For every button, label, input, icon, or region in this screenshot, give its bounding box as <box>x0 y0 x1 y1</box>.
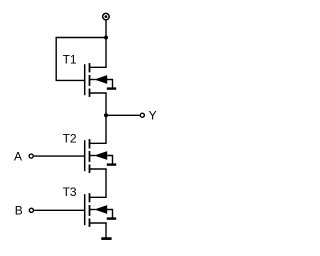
T1 bulk pin <box>90 79 96 81</box>
T2 gate bar <box>84 140 86 171</box>
T3 channel segment source-side <box>89 219 91 227</box>
T1 channel segment source-side <box>89 89 91 97</box>
T2 source pin <box>90 168 107 170</box>
T3 channel segment bulk-side <box>89 205 91 216</box>
T2 channel segment drain-side <box>89 139 91 148</box>
wire T1 gate lead <box>56 79 85 81</box>
svg-text:B: B <box>15 203 23 217</box>
T1 bulk tap bar <box>107 87 116 89</box>
wire T1 source to node Y <box>105 93 107 115</box>
T2 drain pin <box>90 142 107 144</box>
T3 gate bar <box>84 194 86 225</box>
T2 channel segment source-side <box>89 165 91 173</box>
T1 bulk tap wire <box>107 80 113 89</box>
T3 source pin <box>90 222 107 224</box>
transistor T3 <box>85 193 117 227</box>
T1 channel segment bulk-side <box>89 75 91 86</box>
wire supply to rail node <box>105 20 107 37</box>
supply terminal (VDD) <box>103 13 110 20</box>
wire B to T3 gate <box>34 209 85 211</box>
T3 bulk arrow <box>94 205 107 214</box>
terminal A <box>29 154 33 158</box>
T3 bulk pin <box>90 209 96 211</box>
terminal B <box>29 208 33 212</box>
wire A to T2 gate <box>34 155 85 157</box>
wire node Y to T2 drain <box>105 115 107 143</box>
T1 channel segment drain-side <box>89 63 91 72</box>
wire T2 source to T3 drain <box>105 169 107 197</box>
node Y junction <box>104 113 108 117</box>
wire top rail <box>56 37 106 39</box>
T2 bulk arrow <box>94 151 107 160</box>
ground <box>101 237 111 240</box>
T2 bulk tap bar <box>107 163 116 165</box>
node rail junction <box>104 36 108 40</box>
T2 bulk tap wire <box>107 156 113 165</box>
T3 drain pin <box>90 196 107 198</box>
wire T3 source to ground <box>105 223 107 238</box>
T2 channel segment bulk-side <box>89 151 91 162</box>
T2 bulk pin <box>90 155 96 157</box>
T1 bulk arrow <box>94 75 107 84</box>
T3 bulk tap wire <box>107 210 113 219</box>
svg-text:T2: T2 <box>63 132 77 146</box>
svg-text:Y: Y <box>149 108 157 122</box>
T1 drain pin <box>90 66 107 68</box>
T1 gate bar <box>84 64 86 95</box>
wire T1 drain (rail node down to drain stub) <box>105 38 107 68</box>
svg-text:T3: T3 <box>63 185 77 199</box>
svg-text:A: A <box>14 149 22 163</box>
wire node Y to output terminal <box>106 114 140 116</box>
transistor T1 <box>85 63 117 97</box>
T1 source pin <box>90 92 107 94</box>
T3 bulk tap bar <box>107 217 116 219</box>
wire gate-loop left vertical <box>55 37 57 81</box>
svg-text:T1: T1 <box>63 53 77 67</box>
T3 channel segment drain-side <box>89 193 91 202</box>
terminal Y <box>140 113 144 117</box>
transistor T2 <box>85 139 117 173</box>
